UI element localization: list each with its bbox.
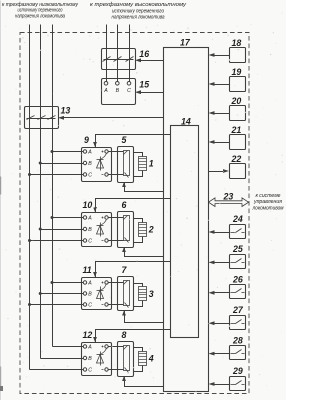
contact block S28 <box>230 346 246 360</box>
svg-text:4: 4 <box>148 354 154 364</box>
heater element E4 <box>134 348 147 372</box>
wire tap phase-2 to rectifier 11 input B <box>41 293 84 295</box>
svg-text:к системе: к системе <box>256 193 281 199</box>
svg-text:В: В <box>88 161 92 167</box>
wire DC- from rectifier 11 to inverter 7 <box>109 304 124 306</box>
wire bus 23 (bidirectional, hollow double arrow) <box>209 198 249 207</box>
wire DC+ from rectifier 11 to inverter 7 <box>109 282 124 284</box>
switch Q16 (three-pole HV contactor) <box>102 49 136 70</box>
wire tap phase-1 to rectifier 9 input C <box>30 174 84 176</box>
svg-text:управления: управления <box>253 199 282 205</box>
svg-text:25: 25 <box>232 244 243 254</box>
svg-text:23: 23 <box>223 191 234 201</box>
wire from block 18 to unit 17 <box>214 55 230 57</box>
wire tap phase-3 to rectifier 9 input A <box>53 151 84 153</box>
svg-text:8: 8 <box>122 330 127 340</box>
rectifier U11 (controlled rectifier) <box>82 278 112 310</box>
wire control from unit 14 to rectifier 9 <box>96 135 171 148</box>
svg-text:6: 6 <box>122 200 127 210</box>
wire tap phase-2 to rectifier 10 input B <box>41 229 84 231</box>
wire tap phase-1 to rectifier 11 input C <box>30 304 84 306</box>
wire DC+ from rectifier 12 to inverter 8 <box>109 346 124 348</box>
wire DC+ from rectifier 9 to inverter 5 <box>109 151 124 153</box>
wire: control from unit 17 to switch 13 <box>64 117 164 119</box>
sensor block 20 <box>230 106 246 121</box>
svg-text:к трехфазному высоковольтному: к трехфазному высоковольтному <box>90 2 186 8</box>
sensor block 22 <box>230 164 246 179</box>
svg-text:В: В <box>116 88 120 94</box>
svg-text:С: С <box>88 173 92 179</box>
contact block S29 <box>230 377 246 391</box>
contact block S26 <box>230 285 246 299</box>
svg-text:С: С <box>127 88 131 94</box>
wire tap phase-2 to rectifier 9 input B <box>41 163 84 165</box>
wire tap phase-3 to rectifier 10 input A <box>53 217 84 219</box>
svg-text:16: 16 <box>139 49 149 59</box>
wire control from unit 14 to rectifier 12 <box>96 330 171 343</box>
svg-text:13: 13 <box>61 106 71 116</box>
rectifier U9 (controlled rectifier) <box>82 148 112 182</box>
wire from block 19 to unit 17 <box>214 84 230 86</box>
wire from block 28 to unit 17 <box>214 353 230 355</box>
contact block S27 <box>230 316 246 330</box>
svg-text:локомотивом: локомотивом <box>252 205 284 211</box>
svg-text:21: 21 <box>231 125 242 135</box>
svg-text:11: 11 <box>83 265 92 275</box>
wire from block 27 to unit 17 <box>214 323 230 325</box>
svg-text:С: С <box>88 239 92 245</box>
contact block S25 <box>230 255 246 269</box>
wire tap phase-3 to rectifier 12 input A <box>53 346 84 348</box>
wire DC- from rectifier 10 to inverter 6 <box>109 240 124 242</box>
inverter U7 (controlled converter) <box>118 277 134 311</box>
net label: to low-voltage three-phase AC source of locomotive <box>2 2 78 20</box>
inverter U8 (controlled converter) <box>118 342 134 377</box>
svg-text:В: В <box>88 227 92 233</box>
wire control from unit 14 to inverter 6 <box>125 248 164 257</box>
wire tap phase-2 to rectifier 12 input B <box>41 358 84 360</box>
svg-text:1: 1 <box>149 159 154 169</box>
svg-text:14: 14 <box>181 116 191 126</box>
wire from block 25 to unit 17 <box>214 262 230 264</box>
wire from block 21 to unit 17 <box>214 142 230 144</box>
wire HV phase B <box>117 25 119 82</box>
wire DC- from rectifier 12 to inverter 8 <box>109 369 124 371</box>
wire control from unit 14 to inverter 5 <box>125 183 164 192</box>
heater element E3 <box>134 284 147 307</box>
wire phase-2 (left supply, x=40.2) <box>40 25 42 359</box>
svg-text:9: 9 <box>84 135 89 145</box>
wire phase-1 (left supply, x=29.5) <box>29 25 31 370</box>
svg-text:29: 29 <box>232 366 243 376</box>
wire from block 26 to unit 17 <box>214 292 230 294</box>
wire from block 29 to unit 17 <box>214 384 230 386</box>
scan edge artifacts (decorative) <box>0 1 2 400</box>
svg-text:28: 28 <box>232 335 243 345</box>
switch Q13 (three-pole disconnector) <box>25 107 59 129</box>
svg-text:26: 26 <box>232 275 243 285</box>
svg-text:напряжения локомотива: напряжения локомотива <box>15 13 65 19</box>
control unit U14 <box>171 126 199 338</box>
rectifier U10 (controlled rectifier) <box>82 213 112 247</box>
wire control from unit 14 to rectifier 11 <box>96 262 171 278</box>
svg-text:2: 2 <box>148 225 154 235</box>
svg-text:В: В <box>88 292 92 298</box>
svg-text:А: А <box>87 150 92 156</box>
wire: control from unit 17 to unit 15 <box>141 92 164 94</box>
wire tap phase-1 to rectifier 10 input C <box>30 240 84 242</box>
svg-text:19: 19 <box>232 67 242 77</box>
net label: to high-voltage three-phase AC source of locomotive <box>90 2 186 20</box>
rectifier U12 (controlled rectifier) <box>82 343 112 376</box>
wire HV phase C <box>129 25 131 82</box>
wire phase-3 (left supply, x=52) <box>52 25 54 347</box>
svg-text:10: 10 <box>83 200 93 210</box>
control cabinet U17 <box>164 48 209 392</box>
svg-text:В: В <box>88 356 92 362</box>
wire tap phase-1 to rectifier 12 input C <box>30 369 84 371</box>
wire control from unit 14 to inverter 7 <box>125 311 164 323</box>
inverter U5 (controlled converter) <box>118 147 134 183</box>
svg-text:15: 15 <box>139 80 149 90</box>
wire HV phase A <box>106 25 108 82</box>
wire DC+ from rectifier 10 to inverter 6 <box>109 217 124 219</box>
svg-text:А: А <box>103 88 108 94</box>
svg-text:20: 20 <box>231 96 242 106</box>
heater element E1 <box>134 153 147 177</box>
heater element E2 <box>134 219 147 243</box>
svg-text:22: 22 <box>231 154 242 164</box>
wire from block 20 to unit 17 <box>214 113 230 115</box>
sensor block 18 <box>230 48 246 63</box>
wire from block 24 to unit 17 <box>214 232 230 234</box>
svg-text:3: 3 <box>149 289 154 299</box>
svg-text:А: А <box>87 216 92 222</box>
svg-text:27: 27 <box>232 305 244 315</box>
svg-text:С: С <box>88 303 92 309</box>
sensor block 19 <box>230 77 246 92</box>
net label: to locomotive control system <box>252 193 284 211</box>
svg-text:напряжения локомотива: напряжения локомотива <box>112 15 165 21</box>
svg-text:24: 24 <box>232 214 243 224</box>
svg-text:5: 5 <box>122 135 127 145</box>
contact block S24 <box>230 225 246 239</box>
wire: control from unit 17 to switch 16 <box>141 60 164 62</box>
wire control from unit 14 to inverter 8 <box>125 377 164 387</box>
svg-text:А: А <box>87 281 92 287</box>
wire control from unit 14 to rectifier 10 <box>96 199 171 213</box>
inverter U6 (controlled converter) <box>118 212 134 248</box>
svg-text:источнику переменного: источнику переменного <box>112 8 164 14</box>
sensor block 21 <box>230 135 246 150</box>
svg-text:А: А <box>87 345 92 351</box>
wire from unit 17 to block 22 <box>209 171 225 173</box>
svg-text:С: С <box>88 368 92 374</box>
dashed enclosure boundary <box>20 33 249 394</box>
svg-text:17: 17 <box>180 37 191 47</box>
transformer unit 15 with terminals A B C <box>102 79 136 105</box>
wire DC- from rectifier 9 to inverter 5 <box>109 174 124 176</box>
wire tap phase-3 to rectifier 11 input A <box>53 282 84 284</box>
